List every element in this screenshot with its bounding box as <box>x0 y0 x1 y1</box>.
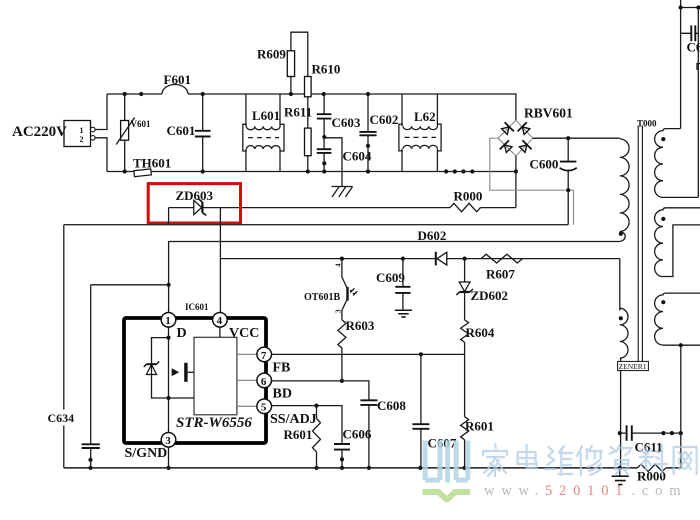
pin 3 (S/GND) <box>125 433 176 462</box>
svg-text:R603: R603 <box>346 318 375 333</box>
svg-text:R611: R611 <box>284 105 312 120</box>
wire SS/ADJ line pin5 to C606 <box>272 404 343 445</box>
node bottom rail dot cluster <box>444 169 474 173</box>
svg-text:C609: C609 <box>376 270 405 285</box>
node bottom rail junctions <box>123 169 205 173</box>
wire internal drain rail <box>166 327 170 433</box>
wire VCC pin4 to control block <box>219 327 221 337</box>
svg-text:C603: C603 <box>332 115 361 130</box>
wire bottom AC rail <box>107 171 246 173</box>
wire C603/C604 node to ground <box>324 138 342 187</box>
resistor R609 <box>257 47 295 97</box>
watermark logo (book icon) <box>425 441 468 483</box>
capacitor C603 <box>317 92 361 139</box>
node D602 row junctions <box>340 257 467 261</box>
wire top rail L62 to bridge <box>437 94 516 120</box>
wire bridge + output to transformer primary top <box>533 136 620 140</box>
svg-text:C634: C634 <box>48 411 75 425</box>
transformer secondary winding 3 <box>655 293 700 347</box>
wire gray path bridge - terminal to C600 bottom <box>490 138 574 225</box>
transformer aux winding <box>619 308 628 358</box>
svg-text:SS/ADJ: SS/ADJ <box>270 412 317 427</box>
wire startup line (ZD603/R000 row) <box>169 207 516 209</box>
svg-text:D602: D602 <box>418 228 447 243</box>
ground (AC filter, slashed) <box>332 187 353 198</box>
svg-text:BD: BD <box>273 387 292 402</box>
svg-text:2: 2 <box>80 135 84 144</box>
svg-text:D: D <box>177 326 187 341</box>
wire connector pin2 to bottom rail <box>95 138 107 172</box>
svg-text:5: 5 <box>261 402 267 414</box>
zener diode internal clamp <box>144 361 159 374</box>
svg-text:www.: www. <box>484 483 545 499</box>
inductor L62 (common-mode choke) <box>399 94 441 172</box>
svg-text:L601: L601 <box>252 108 280 123</box>
svg-text:ZD602: ZD602 <box>471 288 509 303</box>
wire secondary1 top to top-right feed <box>679 0 683 129</box>
watermark logo swoosh <box>423 492 471 499</box>
wire connector pin1 to top rail <box>95 94 107 130</box>
svg-text:FB: FB <box>273 361 291 376</box>
transformer T000 label <box>637 119 657 129</box>
transistor internal MOSFET gate <box>172 363 194 382</box>
capacitor C604 <box>317 137 372 174</box>
ground (C609, earth) <box>395 310 412 317</box>
wire internal clamp rail <box>152 338 195 398</box>
optocoupler OT601B (phototransistor) <box>304 259 357 320</box>
resistor R000 (startup) <box>450 189 482 212</box>
svg-text:STR-W6556: STR-W6556 <box>176 415 252 431</box>
resistor R000 (secondary ground link) <box>637 464 666 483</box>
wire top-right link <box>681 5 700 197</box>
varistor V601 <box>116 94 151 172</box>
thermistor TH601 <box>133 156 171 177</box>
resistor R611 <box>284 105 312 174</box>
svg-text:4: 4 <box>217 315 223 327</box>
wire secondary return (x=681) <box>680 345 682 468</box>
wire top AC rail <box>107 93 246 95</box>
svg-text:6: 6 <box>261 376 267 388</box>
capacitor C608 <box>360 398 406 470</box>
svg-text:AC220V: AC220V <box>12 124 67 140</box>
capacitor C609 <box>376 259 411 311</box>
svg-text:7: 7 <box>261 350 267 362</box>
zener diode ZD602 <box>456 259 508 320</box>
wire right edge stub <box>697 64 700 71</box>
wire BD line pin6 to C608 <box>272 381 369 400</box>
wire VCC feed line (D602 row) <box>220 258 619 260</box>
svg-text:C6: C6 <box>687 40 700 55</box>
connector CN1 (AC input, pins 1 2) <box>64 121 95 147</box>
capacitor C602 <box>359 92 398 174</box>
svg-text:R601: R601 <box>284 427 313 442</box>
capacitor C611 <box>618 425 681 454</box>
svg-text:R000: R000 <box>454 189 483 204</box>
watermark url www.520101.com <box>484 483 687 499</box>
pin 5 (SS/ADJ) <box>257 399 317 427</box>
watermark text (CJK drawn strokes) <box>483 444 697 476</box>
wire ZD603 cathode to IC pin4 (VCC) <box>219 208 221 313</box>
wire drain line primary-bottom to IC pin1 <box>167 242 620 313</box>
svg-text:VCC: VCC <box>229 326 259 341</box>
svg-text:R610: R610 <box>312 62 341 77</box>
wire mains return line (y=225) <box>64 224 568 226</box>
svg-text:IC601: IC601 <box>185 302 209 312</box>
label AC220V <box>12 124 67 140</box>
node top rail junctions <box>123 92 205 96</box>
wire R607 to aux winding <box>619 259 621 311</box>
svg-text:RBV601: RBV601 <box>524 106 573 121</box>
wire pin3 to bottom rail <box>168 447 170 468</box>
svg-text:1: 1 <box>165 315 171 327</box>
svg-text:C601: C601 <box>167 123 196 138</box>
svg-text:C602: C602 <box>370 112 399 127</box>
svg-text:R604: R604 <box>466 325 495 340</box>
transformer core <box>638 126 642 362</box>
wire snubber branch line (y=284.8) <box>91 284 169 286</box>
resistor R604 <box>461 320 495 355</box>
svg-text:1: 1 <box>80 126 84 135</box>
wire FB line pin7 to R604/R601 node <box>272 352 465 356</box>
wire bottom ground rail <box>64 466 681 470</box>
inductor L601 (common-mode choke) <box>243 94 284 172</box>
wire bottom rail L62 to bridge node <box>437 171 516 173</box>
capacitor C606 <box>334 427 372 471</box>
svg-text:S/GND: S/GND <box>125 446 168 461</box>
svg-text:C600: C600 <box>530 157 559 172</box>
svg-text:C606: C606 <box>343 427 372 442</box>
fuse F601 <box>162 72 191 94</box>
capacitor C634 <box>46 285 100 470</box>
diode D602 <box>418 228 447 265</box>
svg-text:T000: T000 <box>637 119 657 129</box>
resistor R603 <box>338 318 375 383</box>
IC601 inner control block <box>194 337 237 415</box>
pin 7 (FB) <box>257 347 290 375</box>
svg-text:L62: L62 <box>414 109 436 124</box>
IC U601 IC601 STR-W6556 outline <box>124 302 266 443</box>
capacitor C607 <box>412 354 456 470</box>
pin 6 (BD) <box>257 373 292 401</box>
svg-text:F601: F601 <box>164 72 191 87</box>
wire R609/R610 top link <box>291 32 308 76</box>
svg-text:C608: C608 <box>377 398 406 413</box>
svg-text:ZENER1: ZENER1 <box>619 362 647 371</box>
resistor R607 <box>481 254 523 281</box>
resistor R610 <box>305 62 341 129</box>
pin 1 (D) <box>161 313 186 342</box>
zener diode ZD603 <box>176 188 214 215</box>
wire top rail L601 to L62 <box>280 93 402 95</box>
ground (secondary, earth) <box>612 468 629 485</box>
svg-text:.com: .com <box>632 483 688 499</box>
resistor R601 (SS/ADJ) <box>284 406 321 470</box>
wire bottom rail L601 to L62 <box>280 171 402 173</box>
wire control block to pins 7 6 5 <box>237 354 257 406</box>
wire bridge bottom to AC rail node and R000 line <box>514 156 518 208</box>
resistor R601 (FB divider lower) <box>461 354 494 470</box>
svg-text:OT601B: OT601B <box>304 292 340 303</box>
svg-text:TH601: TH601 <box>133 156 171 171</box>
wire left return drop (x=63.8) <box>63 225 65 468</box>
svg-text:R609: R609 <box>257 47 286 62</box>
transformer secondary winding 1 <box>655 129 699 198</box>
capacitor C6xx (top right) <box>681 25 700 54</box>
capacitor C600 <box>530 138 577 225</box>
wire ZD603 anode drop to mains return line <box>168 208 170 225</box>
wire aux winding to ZENER1 to rail <box>620 358 622 468</box>
bridge rectifier RBV601 <box>498 106 573 156</box>
transformer primary winding <box>619 139 629 242</box>
label STR-W6556 <box>176 415 252 431</box>
node C611 output dot cluster <box>661 431 683 435</box>
svg-text:R607: R607 <box>486 267 515 282</box>
highlight red box around ZD603 <box>148 184 240 223</box>
regulator ZENER1 box <box>618 361 649 371</box>
svg-text:520101: 520101 <box>545 483 629 499</box>
capacitor C601 <box>167 94 211 172</box>
transformer secondary winding 2 <box>655 208 700 277</box>
svg-text:V601: V601 <box>131 119 151 129</box>
pin 4 (VCC) <box>213 313 260 342</box>
